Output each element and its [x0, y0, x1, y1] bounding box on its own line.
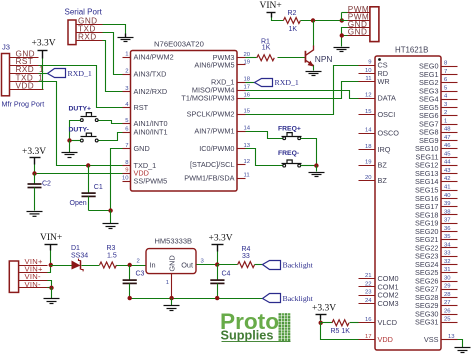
svg-text:VIN-: VIN- — [25, 280, 42, 289]
svg-text:14: 14 — [244, 126, 251, 132]
connector Serial Port — [65, 8, 103, 45]
pin 17 VDD (U2) — [359, 334, 393, 344]
pin RXD (Serial Port) — [77, 40, 103, 42]
svg-text:DATA: DATA — [378, 94, 397, 103]
junction (U3 gnd) — [169, 296, 173, 300]
svg-text:10: 10 — [122, 175, 129, 181]
pin 22 COM1 (U2) — [359, 281, 399, 291]
svg-text:OSCO: OSCO — [378, 128, 400, 137]
svg-text:AIN0/INT1: AIN0/INT1 — [134, 127, 168, 136]
IC U2 HT1621B — [375, 46, 441, 351]
wire R1 to base — [278, 57, 305, 59]
wire FREQ+ right down — [301, 139, 317, 166]
pin 48 SEG8 (U2) — [419, 127, 457, 137]
wire J3 RST to U1 pin4 — [39, 66, 123, 108]
pin 41 SEG15 (U2) — [415, 185, 458, 195]
svg-text:SS34: SS34 — [71, 253, 88, 260]
svg-text:25: 25 — [444, 317, 451, 323]
pin PWM 1 — [348, 12, 370, 14]
pin 21 COM0 (U2) — [359, 273, 399, 283]
svg-text:40: 40 — [444, 193, 451, 199]
pin 39 SEG17 (U2) — [415, 201, 458, 211]
pin 13 IC0/PWM0 — [199, 143, 251, 153]
junction (FREQ gnd) — [314, 163, 318, 167]
pin 12 DATA (U2) — [359, 93, 397, 103]
pin 10 RD (U2) — [359, 68, 389, 78]
logo Proto Supplies — [220, 309, 291, 343]
wire PWM rows tie — [342, 12, 348, 14]
capacitor C3 — [123, 266, 145, 299]
svg-text:OSCI: OSCI — [378, 110, 396, 119]
power VIN+ (bottom) — [40, 233, 62, 250]
svg-text:15: 15 — [244, 108, 251, 114]
wire DUTY+ right to U1 pin5 — [99, 121, 123, 124]
pin 12 [STADC]/SCL — [190, 159, 250, 169]
svg-text:RXD_1: RXD_1 — [275, 78, 299, 87]
pin 11 PWM1/FB/SDA — [184, 172, 249, 182]
wire DUTY+ left to gnd rail — [70, 121, 81, 141]
pin 7 SEG1 (U2) — [419, 69, 457, 79]
svg-text:1K: 1K — [262, 45, 271, 52]
svg-text:AIN2/RXD: AIN2/RXD — [134, 87, 168, 96]
wire DUTY- right to U1 pin6 — [99, 133, 123, 141]
svg-text:45: 45 — [444, 152, 451, 158]
pin 28 SEG28 (U2) — [415, 292, 458, 302]
wire gnd rail — [130, 298, 263, 300]
wire U1 pin13 to FREQ- — [246, 149, 284, 166]
wire VIN- rows tie — [48, 281, 52, 288]
pin 9 VDD — [123, 167, 149, 177]
wire serial RXD to U1 pin3 — [103, 41, 123, 92]
wire U1 pin17 to U2 DATA — [246, 91, 359, 99]
svg-text:In: In — [150, 260, 156, 269]
pin 32 SEG24 (U2) — [415, 259, 458, 269]
pin GND (J3) — [10, 57, 39, 59]
svg-text:HM53333B: HM53333B — [155, 237, 193, 246]
wire U1 pin20 to R1 — [246, 57, 257, 59]
pin 38 SEG18 (U2) — [415, 209, 458, 219]
svg-text:16: 16 — [244, 93, 251, 99]
svg-text:NPN: NPN — [315, 54, 333, 64]
ground (U1 / C1) — [103, 211, 119, 229]
svg-text:13: 13 — [448, 334, 455, 340]
svg-text:Backlight: Backlight — [283, 260, 314, 269]
pin GND 1 — [348, 27, 370, 29]
ground (NPN emitter) — [306, 72, 322, 76]
wire VSS to ground — [458, 340, 463, 348]
pin 17 MISO/PWM4 — [192, 85, 250, 95]
connector VIN (power input) — [9, 257, 47, 292]
svg-text:[STADC]/SCL: [STADC]/SCL — [190, 160, 234, 169]
pin 14 AIN7/PWM1 — [194, 126, 250, 136]
svg-text:18: 18 — [244, 77, 251, 83]
pin 40 SEG16 (U2) — [415, 193, 458, 203]
svg-text:31: 31 — [444, 267, 451, 273]
svg-text:44: 44 — [444, 160, 451, 166]
junction (R5 node) — [319, 321, 323, 325]
svg-text:RXD_1: RXD_1 — [68, 69, 92, 78]
svg-text:C2: C2 — [42, 181, 51, 188]
svg-text:D1: D1 — [71, 245, 80, 252]
svg-text:38: 38 — [444, 209, 451, 215]
junction (collector node) — [311, 18, 315, 22]
wire C1 bottom to gnd node — [89, 210, 111, 212]
svg-text:33: 33 — [242, 253, 250, 260]
resistor R3 1.5 — [100, 245, 117, 268]
wire VIN+ rows tie — [48, 266, 51, 273]
pin 25 SEG31 (U2) — [415, 317, 458, 327]
pin 8 SEG0 (U2) — [419, 61, 457, 71]
svg-text:26: 26 — [444, 308, 451, 314]
pin 4 SEG4 (U2) — [419, 94, 457, 104]
junction (+3.3V out) — [215, 262, 219, 266]
pin 15 OSCI (U2) — [359, 109, 396, 119]
svg-text:34: 34 — [444, 242, 451, 248]
resistor R4 33 — [238, 246, 255, 267]
svg-text:GND: GND — [168, 255, 177, 271]
wire U1 pin15 to U2 CS — [246, 66, 359, 115]
svg-text:R3: R3 — [107, 245, 116, 252]
svg-text:22: 22 — [365, 281, 372, 287]
svg-text:SPCLK/PWM2: SPCLK/PWM2 — [187, 109, 235, 118]
pin 35 SEG21 (U2) — [415, 234, 458, 244]
svg-text:46: 46 — [444, 143, 451, 149]
resistor R2 1K — [283, 10, 300, 33]
junction (GND node) — [108, 208, 112, 212]
svg-text:R5 1K: R5 1K — [331, 328, 351, 335]
wire VIN+ down — [50, 251, 52, 266]
junction (PWM gnd) — [340, 33, 344, 37]
svg-text:FREQ-: FREQ- — [278, 150, 299, 157]
junction (VIN+) — [49, 263, 53, 267]
svg-text:2: 2 — [137, 259, 140, 265]
svg-text:36: 36 — [444, 226, 451, 232]
pin TXD (Serial Port) — [77, 32, 103, 34]
svg-text:1K: 1K — [289, 26, 298, 33]
svg-text:29: 29 — [444, 284, 451, 290]
junction (+3.3V / C2) — [32, 171, 36, 175]
wire U3 Out to +3.3V node — [197, 264, 218, 266]
pin 46 SEG10 (U2) — [415, 143, 458, 153]
pin 6 SEG2 (U2) — [419, 77, 457, 87]
svg-text:18: 18 — [365, 144, 372, 150]
pin 24 COM3 (U2) — [359, 298, 399, 308]
pin 5 AIN1/INT0 — [123, 118, 168, 128]
svg-text:28: 28 — [444, 292, 451, 298]
svg-text:43: 43 — [444, 168, 451, 174]
svg-text:24: 24 — [365, 298, 372, 304]
wire U1 pin16 to U2 WR — [246, 82, 359, 99]
pushbutton FREQ- — [278, 150, 302, 167]
pin 18 RXD_1 — [211, 77, 251, 87]
svg-text:13: 13 — [244, 143, 251, 149]
svg-text:FREQ+: FREQ+ — [278, 126, 301, 133]
svg-text:20: 20 — [365, 175, 372, 181]
svg-text:12: 12 — [365, 93, 372, 99]
svg-text:AIN7/PWM1: AIN7/PWM1 — [194, 127, 234, 136]
pin VIN+ 2 — [19, 272, 48, 274]
pin 3 SEG5 (U2) — [419, 102, 457, 112]
svg-text:37: 37 — [444, 218, 451, 224]
svg-text:11: 11 — [365, 76, 371, 82]
pin RST (J3) — [10, 65, 39, 67]
wire +3.3V to J3 VDD — [42, 59, 44, 90]
svg-text:10: 10 — [365, 68, 372, 74]
ground (FREQ buttons) — [309, 166, 325, 177]
svg-text:27: 27 — [444, 300, 451, 306]
svg-text:+3.3V: +3.3V — [312, 304, 336, 314]
wire J3 RXD_1 to flag — [39, 73, 48, 75]
pin VDD (J3) — [10, 89, 44, 91]
svg-text:DUTY+: DUTY+ — [69, 106, 92, 113]
pin TXD_1 (J3) — [10, 81, 39, 83]
svg-text:R2: R2 — [288, 10, 297, 17]
svg-text:C4: C4 — [222, 270, 231, 277]
pin 2 SEG6 (U2) — [419, 110, 457, 120]
svg-text:41: 41 — [444, 185, 451, 191]
capacitor C4 — [210, 265, 230, 299]
net label Backlight (lower) — [263, 294, 314, 303]
svg-text:30: 30 — [444, 275, 451, 281]
net label RXD_1 (right) — [255, 78, 299, 87]
pin 36 SEG20 (U2) — [415, 226, 458, 236]
ground (regulator) — [164, 299, 180, 311]
pushbutton DUTY+ — [69, 106, 99, 122]
svg-text:Out: Out — [181, 260, 193, 269]
svg-text:VDD: VDD — [16, 81, 35, 90]
svg-text:SS/PWM5: SS/PWM5 — [134, 176, 168, 185]
svg-text:2: 2 — [444, 110, 447, 116]
wire to R5 — [321, 322, 333, 324]
power +3.3V (VLCD) — [312, 304, 336, 320]
junction (C3 top) — [128, 263, 132, 267]
svg-text:32: 32 — [444, 259, 451, 265]
pushbutton FREQ+ — [278, 126, 302, 140]
net label RXD_1 (left) — [48, 69, 92, 79]
svg-text:+3.3V: +3.3V — [22, 147, 46, 157]
ground (VIN-) — [44, 288, 60, 304]
junction (C3 gnd) — [128, 296, 132, 300]
pin 20 PWM3 — [213, 52, 251, 62]
wire DUTY- left — [70, 140, 81, 142]
svg-text:+3.3V: +3.3V — [209, 234, 233, 244]
ground (VSS) — [455, 348, 471, 353]
svg-text:PWM1/FB/SDA: PWM1/FB/SDA — [184, 173, 234, 182]
pin 1 AIN4/PWM2 — [123, 52, 174, 62]
svg-text:Serial Port: Serial Port — [65, 8, 103, 17]
pin 37 SEG19 (U2) — [415, 218, 458, 228]
svg-text:BZ: BZ — [378, 161, 388, 170]
svg-text:15: 15 — [365, 109, 372, 115]
pin 23 COM2 (U2) — [359, 290, 399, 300]
svg-text:WR: WR — [378, 77, 390, 86]
svg-text:AIN6/PWM5: AIN6/PWM5 — [194, 60, 234, 69]
wire R3 to U3 In — [117, 265, 147, 267]
pin 3 AIN2/RXD — [123, 86, 168, 96]
pin 18 IRQ (U2) — [359, 144, 391, 154]
pin 16 VLCD (U2) — [359, 317, 397, 327]
power +3.3V (regulator out) — [209, 234, 233, 252]
capacitor C2 — [28, 174, 52, 211]
svg-text:N76E003AT20: N76E003AT20 — [154, 40, 204, 49]
svg-text:9: 9 — [125, 167, 128, 173]
svg-text:VIN+: VIN+ — [40, 233, 62, 243]
svg-text:1.5: 1.5 — [107, 253, 117, 260]
svg-text:COM3: COM3 — [378, 299, 399, 308]
svg-text:11: 11 — [244, 172, 250, 178]
svg-text:47: 47 — [444, 135, 451, 141]
IC U1 N76E003AT20 — [131, 40, 238, 191]
svg-text:16: 16 — [365, 317, 372, 323]
pin PWM 2 — [348, 20, 370, 22]
ground (serial port) — [118, 34, 134, 42]
svg-text:7: 7 — [444, 69, 447, 75]
svg-text:17: 17 — [244, 85, 251, 91]
svg-text:RXD: RXD — [78, 33, 97, 42]
svg-text:GND: GND — [134, 144, 150, 153]
pin VIN+ 1 — [19, 265, 48, 267]
pin 47 SEG9 (U2) — [419, 135, 457, 145]
wire U1 pin18 to flag — [246, 82, 255, 84]
pin 6 AIN0/INT1 — [123, 126, 168, 136]
svg-text:21: 21 — [365, 273, 372, 279]
pin VIN- 1 — [19, 280, 48, 282]
pin 8 TXD_1 — [123, 160, 157, 170]
svg-text:2: 2 — [125, 68, 128, 74]
pushbutton DUTY- — [69, 127, 99, 142]
svg-text:Supplies: Supplies — [221, 329, 274, 343]
svg-text:Open: Open — [70, 200, 87, 207]
svg-text:VSS: VSS — [424, 335, 439, 344]
wire FREQ- right — [301, 165, 317, 167]
svg-text:RST: RST — [134, 103, 149, 112]
pin 34 SEG22 (U2) — [415, 242, 458, 252]
wire serial TXD to U1 pin2 — [103, 33, 123, 75]
wire R2 to header — [301, 20, 342, 22]
svg-text:12: 12 — [244, 159, 251, 165]
pin 33 SEG23 (U2) — [415, 251, 458, 261]
junction (DUTY gnd) — [67, 138, 71, 142]
power +3.3V (VDD rail) — [22, 147, 46, 165]
svg-text:14: 14 — [365, 127, 372, 133]
wire U1 GND pin7 down — [111, 149, 123, 211]
pin 45 SEG11 (U2) — [416, 152, 458, 162]
pin 5 SEG3 (U2) — [419, 85, 457, 95]
svg-text:+3.3V: +3.3V — [32, 39, 56, 49]
junction (PWM pin2) — [340, 18, 344, 22]
wire D1 to R3 — [82, 265, 100, 267]
pin 26 SEG30 (U2) — [415, 308, 458, 318]
svg-text:GND: GND — [348, 28, 368, 37]
pin 14 OSCO (U2) — [359, 127, 400, 137]
pin 44 SEG12 (U2) — [415, 160, 458, 170]
resistor R5 1K — [331, 320, 351, 335]
wire +3.3V rail to U1 VDD pin9 — [35, 165, 123, 174]
svg-text:33: 33 — [444, 251, 451, 257]
svg-text:HT1621B: HT1621B — [395, 46, 428, 55]
svg-text:BZ: BZ — [378, 176, 388, 185]
pin 42 SEG14 (U2) — [415, 176, 458, 186]
pin 19 AIN6/PWM5 — [194, 59, 250, 69]
pin 15 SPCLK/PWM2 — [187, 108, 251, 118]
svg-text:17: 17 — [365, 334, 372, 340]
wire GND rows tie to ground — [342, 28, 348, 36]
pin GND (Serial Port) — [77, 24, 103, 26]
svg-text:1: 1 — [444, 118, 447, 124]
wire R4 to Backlight flag — [255, 264, 263, 266]
pin 43 SEG13 (U2) — [415, 168, 458, 178]
pin 16 T1/MOSI/PWM3 — [181, 93, 250, 103]
ground (PWM header) — [334, 48, 350, 52]
pin 4 RST — [123, 102, 149, 112]
svg-text:19: 19 — [365, 160, 372, 166]
wire VIN+ to D1 — [51, 265, 72, 267]
svg-text:IRQ: IRQ — [378, 145, 391, 154]
pin 2 AIN3/TXD — [123, 68, 167, 78]
svg-text:Mfr Prog Port: Mfr Prog Port — [2, 100, 45, 109]
pin 7 GND — [123, 143, 150, 153]
svg-text:C1: C1 — [94, 184, 103, 191]
junction (TXD_1 / C1) — [86, 163, 90, 167]
junction (VIN-) — [49, 286, 53, 290]
pin VIN- 2 — [19, 287, 48, 289]
connector J3 Mfr Prog Port — [2, 43, 45, 109]
pin 11 WR (U2) — [359, 76, 390, 86]
svg-text:7: 7 — [125, 143, 128, 149]
ground (DUTY buttons) — [62, 141, 78, 158]
svg-text:1: 1 — [166, 280, 169, 286]
regulator U3 HM53333B — [137, 237, 205, 299]
wire R5 to U2 VLCD — [350, 322, 359, 324]
svg-text:23: 23 — [365, 290, 372, 296]
svg-text:AIN3/TXD: AIN3/TXD — [134, 69, 167, 78]
wire U1 pin14 to FREQ+ — [246, 132, 284, 139]
svg-text:42: 42 — [444, 176, 451, 182]
svg-text:39: 39 — [444, 201, 451, 207]
svg-text:C3: C3 — [136, 270, 145, 277]
svg-text:19: 19 — [244, 59, 251, 65]
connector PWM header — [348, 5, 379, 42]
junction (C4 gnd) — [215, 296, 219, 300]
svg-text:IC0/PWM0: IC0/PWM0 — [199, 144, 234, 153]
capacitor C1 (Open) — [70, 166, 103, 211]
pin 30 SEG26 (U2) — [415, 275, 458, 285]
diode D1 SS34 — [71, 245, 88, 271]
pin 13 VSS (U2) — [424, 334, 458, 344]
pin 10 SS/PWM5 — [122, 175, 167, 185]
wire +3.3V to U2 VDD — [321, 323, 359, 340]
pin 9 CS (U2) — [359, 60, 388, 70]
pin 31 SEG25 (U2) — [415, 267, 458, 277]
pin 19 BZ (U2) — [359, 160, 388, 170]
power VIN+ (top) — [260, 1, 282, 17]
svg-text:Backlight: Backlight — [283, 294, 314, 303]
pin 29 SEG27 (U2) — [415, 284, 458, 294]
svg-text:35: 35 — [444, 234, 451, 240]
resistor R1 1K — [257, 39, 274, 61]
wire VIN+ to R2 — [272, 18, 284, 21]
wire +3.3V node to R4 — [218, 264, 238, 266]
pin 20 BZ (U2) — [359, 175, 388, 185]
wire J3 TXD_1 to U1 pin8 — [39, 82, 123, 166]
svg-text:VIN+: VIN+ — [260, 1, 282, 11]
svg-text:VDD: VDD — [378, 335, 393, 344]
wire serial GND to ground — [103, 25, 126, 34]
svg-text:AIN4/PWM2: AIN4/PWM2 — [134, 53, 174, 62]
svg-text:VLCD: VLCD — [378, 318, 397, 327]
pin RXD_1 (J3) — [10, 73, 39, 75]
svg-text:9: 9 — [368, 60, 371, 66]
